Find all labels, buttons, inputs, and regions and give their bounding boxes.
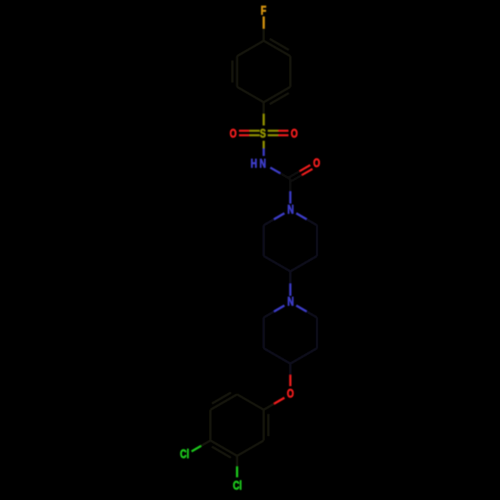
bond B2-TV bbox=[210, 394, 237, 409]
bond A-A2 bbox=[263, 410, 265, 441]
bond C-Cl (chlorine 1) bbox=[192, 441, 211, 452]
bond P2B-P2LL bbox=[264, 348, 291, 363]
bond P1UL-N1 bbox=[264, 213, 285, 225]
svg-text:O: O bbox=[287, 389, 294, 401]
bond A2-CV bbox=[237, 441, 264, 456]
bond P2LL-P2UL bbox=[263, 318, 265, 349]
aromatic inner line C3-C4 bbox=[270, 93, 289, 104]
svg-text:N: N bbox=[287, 205, 294, 217]
svg-text:Cl: Cl bbox=[233, 481, 242, 493]
svg-text:H: H bbox=[251, 159, 258, 171]
bond C4-O (ether) bbox=[289, 364, 291, 387]
bond N2-P2UR bbox=[296, 306, 317, 318]
svg-text:O: O bbox=[230, 129, 237, 141]
bond P2UR-P2LR bbox=[316, 318, 318, 349]
bond C4-S(sulfonyl) bbox=[263, 102, 265, 125]
bond C2-C3 bbox=[289, 56, 291, 87]
bond C-Cl (chlorine 2) bbox=[236, 456, 238, 477]
bond N(H)-C(carbonyl) bbox=[270, 168, 290, 180]
aromatic inner line B2-TV bbox=[212, 393, 231, 404]
bond P1LR-P1B bbox=[290, 256, 317, 271]
bond BV-B2 bbox=[209, 410, 211, 441]
bond C1-C2 bbox=[264, 41, 291, 56]
bond F-C1 bbox=[263, 16, 265, 40]
bond O-C1 (aryl ether) bbox=[264, 398, 285, 410]
bond P1B-P1LL bbox=[264, 256, 291, 271]
bond C4-N2 (bipiperidine link) bbox=[289, 271, 291, 295]
bond C(carbonyl)-N1 bbox=[289, 179, 291, 203]
bond CV-BV bbox=[210, 441, 237, 456]
bond TV-A bbox=[237, 394, 264, 409]
svg-text:N: N bbox=[260, 158, 267, 170]
svg-text:O: O bbox=[291, 129, 298, 141]
aromatic inner line C5-C6 bbox=[231, 60, 233, 82]
bond P2UL-N2 bbox=[264, 306, 285, 318]
svg-text:F: F bbox=[261, 5, 267, 17]
bond N1-P1UR bbox=[296, 213, 317, 225]
double bond S=O right bbox=[268, 131, 289, 136]
svg-text:N: N bbox=[287, 296, 294, 308]
svg-text:Cl: Cl bbox=[180, 449, 189, 461]
bond P2LR-P2B bbox=[290, 348, 317, 363]
double bond C=O carbonyl bbox=[289, 165, 312, 181]
bond C6-C1 bbox=[237, 41, 264, 56]
bond S-N(H) bbox=[263, 141, 265, 156]
aromatic inner line CV-BV bbox=[212, 447, 231, 458]
bond C5-C6 bbox=[236, 56, 238, 87]
bond C3-C4 bbox=[264, 87, 291, 102]
bond P1LL-P1UL bbox=[263, 225, 265, 256]
bond C4-C5 bbox=[237, 87, 264, 102]
svg-text:O: O bbox=[313, 158, 320, 170]
double bond S=O left bbox=[239, 131, 260, 136]
svg-text:S: S bbox=[260, 128, 266, 140]
aromatic inner line A-A2 bbox=[267, 414, 269, 436]
aromatic inner line C1-C2 bbox=[270, 39, 289, 50]
bond P1UR-P1LR bbox=[316, 225, 318, 256]
